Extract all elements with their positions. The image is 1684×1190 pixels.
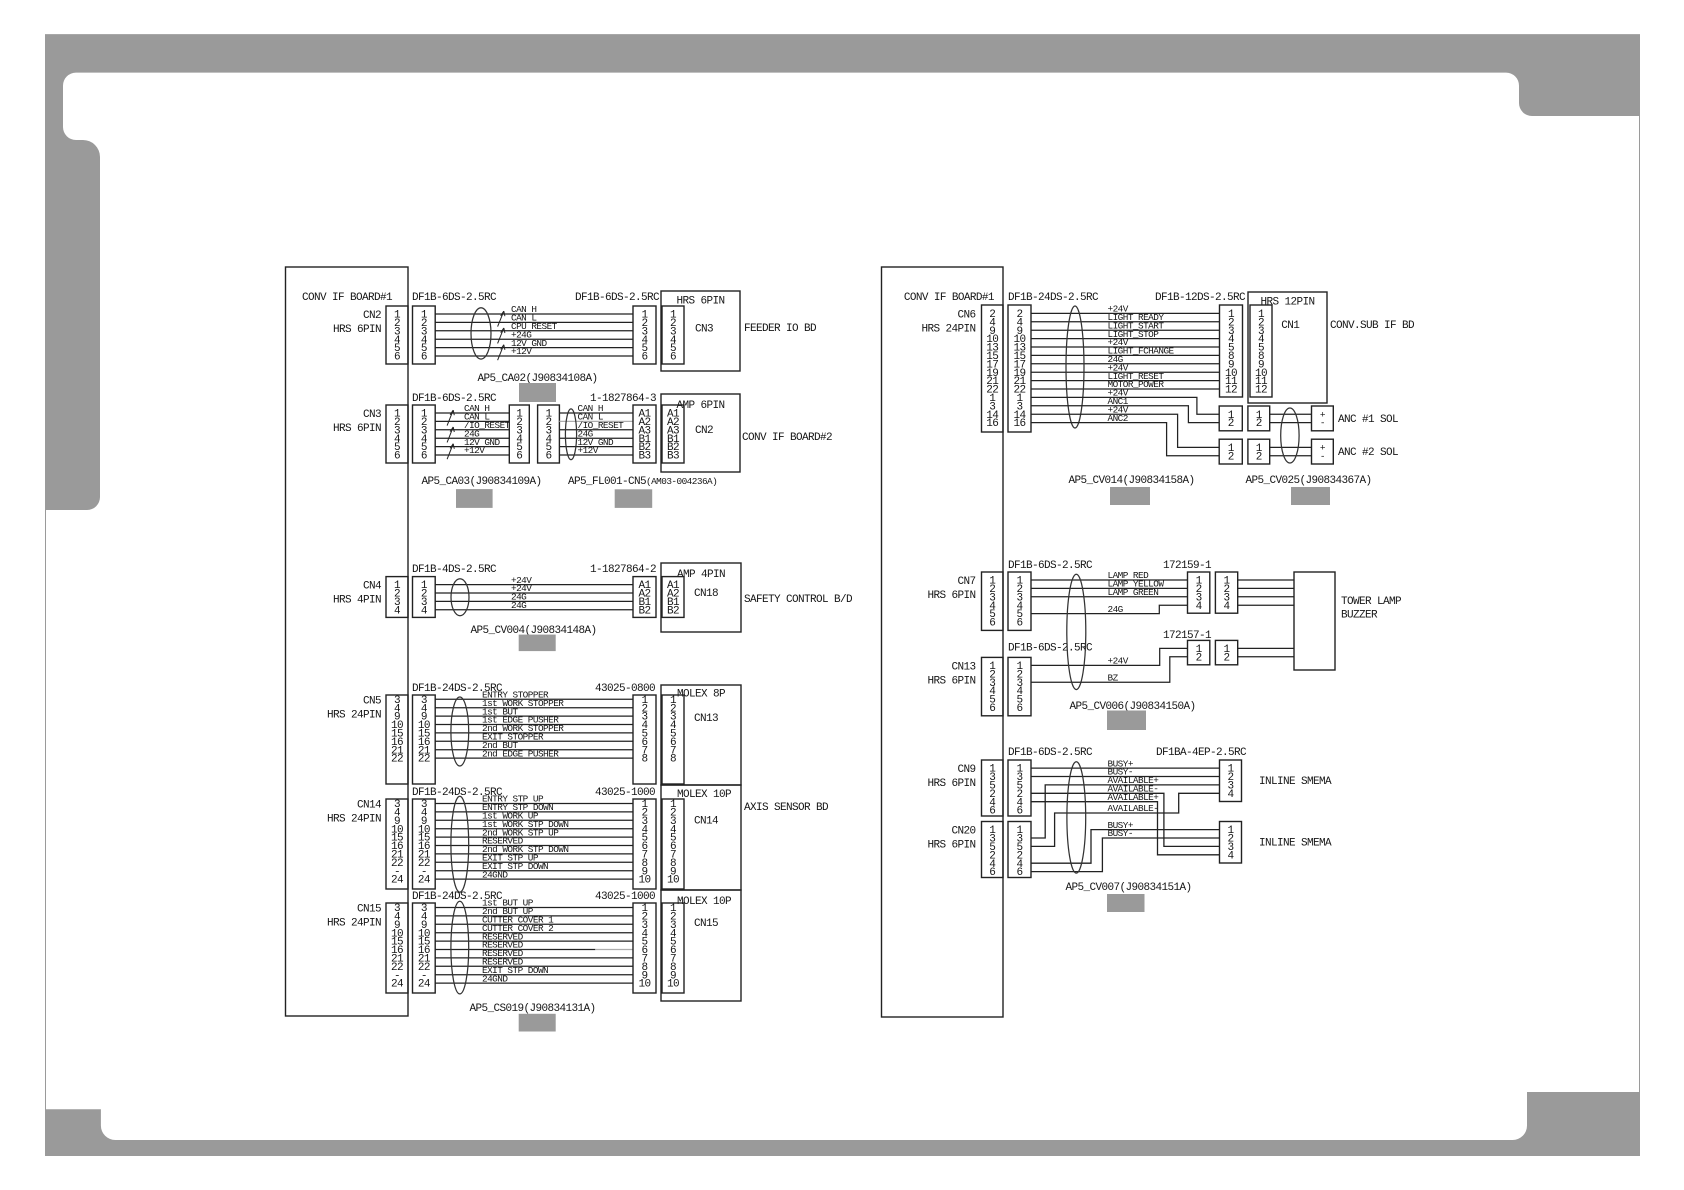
svg-text:24GND: 24GND — [482, 869, 508, 880]
svg-text:HRS 24PIN: HRS 24PIN — [921, 323, 975, 335]
connector CN5 board pin box — [386, 695, 408, 784]
svg-text:6: 6 — [1016, 806, 1022, 818]
svg-text:CN13: CN13 — [951, 661, 975, 673]
svg-text:+12V: +12V — [578, 445, 599, 456]
cable shield ellipse (CN5 bundle) — [451, 697, 469, 766]
svg-text:24: 24 — [391, 979, 404, 991]
svg-text:2: 2 — [1228, 451, 1234, 463]
wires lamp connector to tower lamp — [1238, 580, 1294, 605]
cable shield ellipse AP5_CV006 — [1067, 574, 1086, 689]
connector cable plug (CONV IF BOARD#2 end) — [633, 405, 656, 463]
svg-text:43025-0800: 43025-0800 — [595, 683, 655, 695]
svg-text:24: 24 — [418, 875, 431, 887]
svg-text:CONV.SUB IF BD: CONV.SUB IF BD — [1330, 320, 1415, 332]
svg-text:CN4: CN4 — [363, 581, 382, 593]
svg-text:6: 6 — [545, 451, 551, 463]
wire ANC2 to ANC #2 SOL pin2 — [1031, 413, 1219, 456]
cable shield ellipse (CN14 bundle) — [451, 796, 469, 892]
wire BZ to buzzer connector pin2 — [1031, 657, 1188, 684]
svg-text:DF1B-6DS-2.5RC: DF1B-6DS-2.5RC — [1008, 643, 1093, 655]
label CN3 HRS 6PIN on board — [333, 409, 381, 435]
svg-text:+24V: +24V — [1108, 656, 1129, 667]
cable shield ellipse AP5_CV025 — [1281, 408, 1299, 463]
svg-text:6: 6 — [394, 352, 400, 364]
connector INLINE SMEMA 1 (DF1BA-4EP) — [1220, 760, 1242, 802]
svg-text:AP5_CS019(J90834131A): AP5_CS019(J90834131A) — [469, 1003, 595, 1015]
device TOWER LAMP BUZZER — [1294, 572, 1335, 670]
connector INLINE SMEMA 2 (DF1BA-4EP) — [1220, 822, 1242, 864]
connector CN5 cable plug — [413, 695, 436, 784]
svg-text:CONV IF BOARD#2: CONV IF BOARD#2 — [742, 432, 832, 444]
redaction box (row CN15 bottom) — [519, 1014, 556, 1032]
svg-text:BUZZER: BUZZER — [1341, 609, 1378, 621]
connector CN7 board pin box — [982, 572, 1004, 630]
wire +24V to ANC #1 SOL pin1 — [1031, 388, 1219, 415]
label CN5 HRS 24PIN on board — [327, 695, 381, 721]
board CONV IF BOARD#1 (left) — [286, 267, 409, 1016]
label cable part AP5_CV014(J90834158A) — [1068, 475, 1194, 487]
label connector type 1-1827864-2 — [590, 564, 656, 576]
svg-text:CN3: CN3 — [695, 324, 713, 336]
svg-text:24G: 24G — [511, 600, 527, 611]
connector CN13 board pin box — [982, 657, 1004, 715]
svg-text:6: 6 — [641, 352, 647, 364]
svg-text:24GND: 24GND — [482, 973, 508, 984]
svg-text:24: 24 — [418, 979, 431, 991]
svg-text:10: 10 — [638, 875, 650, 887]
connector CN3 pin box on FEEDER IO BD — [662, 306, 684, 364]
label ANC #2 SOL — [1338, 447, 1398, 459]
connector CN18 pin box on SAFETY CONTROL B/D — [662, 577, 684, 618]
device FEEDER IO BD HRS 6PIN — [661, 291, 740, 371]
svg-text:-: - — [1320, 418, 1325, 429]
wires CN4 cable AP5_CV004 — [435, 575, 633, 611]
label connector type DF1B-12DS-2.5RC — [1155, 292, 1246, 304]
wires CN7 lamp signals — [1031, 570, 1188, 598]
wires CN15 cable (10p) — [435, 898, 633, 985]
label TOWER LAMP BUZZER — [1341, 596, 1402, 621]
svg-text:INLINE SMEMA: INLINE SMEMA — [1259, 838, 1332, 850]
device CONV IF BOARD#2 AMP 6PIN — [661, 394, 740, 472]
svg-text:16: 16 — [986, 418, 998, 430]
wires to ANC #1 SOL — [1270, 414, 1312, 422]
label connector type 172159-1 — [1163, 560, 1212, 572]
label connector type 43025-1000 (CN14) — [595, 787, 655, 799]
label CN20 HRS 6PIN on board — [927, 826, 975, 852]
svg-text:ANC #2 SOL: ANC #2 SOL — [1338, 447, 1398, 459]
svg-text:6: 6 — [1016, 703, 1022, 715]
svg-text:DF1B-24DS-2.5RC: DF1B-24DS-2.5RC — [1008, 292, 1099, 304]
svg-text:22: 22 — [391, 754, 403, 766]
label connector type DF1B-24DS-2.5RC (CN15) — [412, 891, 503, 903]
wire BUSY- CN9.3 to SMEMA1.2 — [1031, 767, 1220, 778]
label INLINE SMEMA (lower) — [1259, 838, 1332, 850]
connector CN9 board pin box — [982, 760, 1004, 818]
redaction box (tower lamp cable) — [1107, 711, 1146, 731]
wire +24V to buzzer connector pin1 — [1031, 648, 1188, 666]
svg-text:HRS 12PIN: HRS 12PIN — [1260, 297, 1314, 309]
svg-text:4: 4 — [1227, 850, 1234, 862]
connector 172159-1 receptacle — [1188, 572, 1210, 613]
svg-text:CN3: CN3 — [363, 409, 381, 421]
redaction box (SMEMA cable) — [1107, 894, 1145, 912]
svg-text:CN15: CN15 — [357, 904, 381, 916]
label CN15 HRS 24PIN on board — [327, 904, 381, 930]
svg-text:AVAILABLE-: AVAILABLE- — [1108, 803, 1159, 814]
redaction box (CN6 cable) — [1110, 487, 1150, 505]
label cable part AP5_CV025(J90834367A) — [1245, 475, 1371, 487]
label INLINE SMEMA (upper) — [1259, 776, 1332, 788]
svg-text:AVAILABLE+: AVAILABLE+ — [1108, 792, 1160, 803]
label connector type 172157-1 — [1163, 630, 1212, 642]
label CONV.SUB IF BD — [1330, 320, 1415, 332]
wire AVAILABLE- CN20 to SMEMA1.4 — [1031, 793, 1220, 846]
svg-text:BUSY-: BUSY- — [1108, 828, 1133, 839]
redaction box (row CN3 right) — [615, 489, 653, 508]
svg-text:AP5_CV007(J90834151A): AP5_CV007(J90834151A) — [1065, 882, 1191, 894]
svg-text:8: 8 — [641, 754, 647, 766]
device AXIS SENSOR BD MOLEX 8P — [661, 685, 741, 785]
connector CN20 board pin box — [982, 822, 1004, 880]
connector CN15 board pin box — [386, 903, 408, 993]
wire AVAILABLE+ CN9.4 to SMEMA2.4 — [1031, 792, 1220, 855]
svg-text:4: 4 — [1224, 601, 1231, 613]
wire AVAILABLE+ CN20 to SMEMA1.3 — [1031, 775, 1220, 838]
svg-text:6: 6 — [989, 806, 995, 818]
label connector type DF1BA-4EP-2.5RC — [1156, 747, 1247, 759]
redaction box (row CN3 left) — [456, 489, 493, 508]
redaction box (row CN2) — [519, 383, 556, 402]
wires buzzer connector to tower lamp — [1238, 648, 1294, 656]
connector CN14 board pin box — [386, 799, 408, 889]
svg-text:10: 10 — [638, 979, 650, 991]
svg-text:B3: B3 — [638, 451, 650, 463]
svg-text:HRS 6PIN: HRS 6PIN — [927, 675, 975, 687]
svg-text:HRS 24PIN: HRS 24PIN — [327, 709, 381, 721]
svg-text:4: 4 — [1227, 789, 1234, 801]
connector CN2 cable plug — [413, 306, 436, 364]
svg-text:CONV IF BOARD#1: CONV IF BOARD#1 — [302, 292, 393, 304]
wires CN2-CN3 cable AP5_CA02 — [435, 304, 633, 360]
wires to ANC #2 SOL — [1270, 447, 1312, 455]
svg-text:CN6: CN6 — [957, 309, 975, 321]
svg-text:BZ: BZ — [1108, 672, 1119, 683]
svg-text:AXIS SENSOR BD: AXIS SENSOR BD — [744, 802, 829, 814]
label connector type DF1B-6DS-2.5RC (CN3 cable) — [412, 393, 497, 405]
label CN14 HRS 24PIN on board — [327, 800, 382, 826]
label cable part AP5_CA03(J90834109A) — [421, 476, 541, 488]
wire AVAILABLE- CN9.2 to SMEMA2.3 — [1031, 784, 1220, 847]
connector molex plug (CN15 end) — [633, 903, 656, 993]
svg-text:CN13: CN13 — [694, 713, 718, 725]
svg-text:-: - — [1320, 451, 1325, 462]
label cable part AP5_CA02(J90834108A) — [477, 373, 597, 385]
svg-text:43025-1000: 43025-1000 — [595, 891, 655, 903]
connector CN3 board pin box — [386, 405, 408, 463]
connector CN7 cable plug — [1008, 572, 1031, 630]
svg-text:AP5_CA03(J90834109A): AP5_CA03(J90834109A) — [421, 476, 541, 488]
connector CN15 pin box on AXIS SENSOR BD — [662, 903, 684, 993]
svg-text:B2: B2 — [638, 605, 650, 617]
label cable part AP5_CV004(J90834148A) — [470, 625, 596, 637]
svg-text:+12V: +12V — [464, 445, 485, 456]
svg-text:6: 6 — [1016, 618, 1022, 630]
label ANC #1 SOL — [1338, 414, 1398, 426]
connector CN13 cable plug — [1008, 657, 1031, 715]
label cable part AP5_CV006(J90834150A) — [1069, 701, 1195, 713]
wire +24V to ANC #2 SOL pin1 — [1031, 404, 1219, 447]
svg-text:6: 6 — [989, 618, 995, 630]
svg-text:CN2: CN2 — [363, 310, 381, 322]
svg-text:2: 2 — [1256, 418, 1262, 430]
connector molex plug (CN14 end) — [633, 799, 656, 889]
svg-text:DF1BA-4EP-2.5RC: DF1BA-4EP-2.5RC — [1156, 747, 1247, 759]
svg-text:12: 12 — [1225, 385, 1237, 397]
connector inline plug AP5_FL001 — [538, 405, 560, 463]
device CONV.SUB IF BD HRS 12PIN — [1248, 292, 1327, 403]
redaction box (row CN4) — [519, 635, 556, 652]
svg-text:16: 16 — [1013, 418, 1025, 430]
connector 172157-1 plug — [1215, 640, 1237, 664]
wire BUSY+ CN9.1 to SMEMA1.1 — [1031, 758, 1220, 769]
svg-text:TOWER LAMP: TOWER LAMP — [1341, 596, 1402, 608]
svg-text:LAMP GREEN: LAMP GREEN — [1108, 587, 1159, 598]
label CONV IF BOARD#2 — [742, 432, 832, 444]
label connector type DF1B-24DS-2.5RC (CN6) — [1008, 292, 1099, 304]
connector ANC #1 cable receptacle — [1219, 406, 1242, 431]
connector CN2 pin box on CONV IF BOARD#2 — [662, 405, 684, 463]
connector CN3 cable plug — [413, 405, 436, 463]
svg-text:FEEDER IO BD: FEEDER IO BD — [744, 323, 817, 335]
svg-text:6: 6 — [1016, 867, 1022, 879]
connector ANC #2 cable receptacle — [1219, 439, 1242, 464]
connector ANC #1 cable plug — [1248, 406, 1270, 431]
solenoid ANC #1 SOL terminal box — [1312, 406, 1334, 431]
svg-text:DF1B-6DS-2.5RC: DF1B-6DS-2.5RC — [412, 292, 497, 304]
label connector type DF1B-6DS-2.5RC (CN9) — [1008, 747, 1093, 759]
svg-text:2: 2 — [1196, 652, 1202, 664]
label cable part AP5_FL001-CN5(AM03-004236A) — [568, 476, 717, 488]
svg-text:8: 8 — [670, 754, 676, 766]
svg-text:(AM03-004236A): (AM03-004236A) — [646, 476, 717, 487]
svg-text:HRS 24PIN: HRS 24PIN — [327, 814, 381, 826]
wires CN5 cable AP5_CS019 (8p) — [435, 690, 633, 760]
svg-text:CN20: CN20 — [951, 826, 975, 838]
svg-text:10: 10 — [667, 979, 679, 991]
svg-text:HRS 4PIN: HRS 4PIN — [333, 595, 381, 607]
svg-text:6: 6 — [989, 867, 995, 879]
label connector type DF1B-6DS-2.5RC (CN2 cable, feeder end) — [575, 292, 660, 304]
label CN7 HRS 6PIN on board — [927, 576, 975, 602]
label connector type DF1B-6DS-2.5RC (CN13) — [1008, 643, 1093, 655]
connector CN4 cable plug — [413, 577, 436, 618]
svg-text:CN7: CN7 — [957, 576, 975, 588]
svg-text:1-1827864-2: 1-1827864-2 — [590, 564, 656, 576]
label connector type DF1B-6DS-2.5RC (CN7) — [1008, 560, 1093, 572]
svg-text:CN1: CN1 — [1281, 320, 1300, 332]
svg-text:24G: 24G — [1108, 604, 1124, 615]
cable shield ellipse AP5_CA02 — [471, 308, 491, 359]
label cable part AP5_CV007(J90834151A) — [1065, 882, 1191, 894]
svg-text:B3: B3 — [667, 451, 679, 463]
label connector type DF1B-4DS-2.5RC — [412, 564, 497, 576]
svg-text:CONV IF BOARD#1: CONV IF BOARD#1 — [904, 292, 995, 304]
svg-text:2: 2 — [1256, 451, 1262, 463]
svg-text:12: 12 — [1255, 385, 1267, 397]
wire BUSY+ CN20 to SMEMA2.1 — [1031, 820, 1220, 863]
connector inline receptacle AP5_CA03 — [509, 405, 529, 463]
svg-text:6: 6 — [394, 451, 400, 463]
cable shield ellipse (CN15 bundle) — [451, 901, 469, 994]
label CN2 HRS 6PIN on board — [333, 310, 381, 336]
connector CN9 cable plug — [1008, 760, 1031, 818]
svg-text:MOLEX 10P: MOLEX 10P — [677, 789, 732, 801]
svg-text:HRS 6PIN: HRS 6PIN — [927, 778, 975, 790]
svg-text:DF1B-6DS-2.5RC: DF1B-6DS-2.5RC — [1008, 560, 1093, 572]
svg-text:6: 6 — [421, 451, 427, 463]
wire 24G to lamp connector pin4 — [1031, 604, 1188, 615]
connector CN4 board pin box — [386, 577, 408, 618]
wires CN14 cable (10p) — [435, 794, 633, 881]
connector CN14 pin box on AXIS SENSOR BD — [662, 799, 684, 889]
svg-text:CN14: CN14 — [694, 816, 719, 828]
wire ANC1 to ANC #1 SOL pin2 — [1031, 396, 1219, 423]
svg-text:AP5_FL001-CN5: AP5_FL001-CN5 — [568, 476, 646, 488]
svg-text:DF1B-6DS-2.5RC: DF1B-6DS-2.5RC — [1008, 747, 1093, 759]
label SAFETY CONTROL B/D — [744, 594, 853, 606]
svg-text:AP5_CV025(J90834367A): AP5_CV025(J90834367A) — [1245, 475, 1371, 487]
svg-text:HRS 6PIN: HRS 6PIN — [927, 840, 975, 852]
svg-text:ANC #1 SOL: ANC #1 SOL — [1338, 414, 1398, 426]
svg-text:DF1B-12DS-2.5RC: DF1B-12DS-2.5RC — [1155, 292, 1246, 304]
svg-text:6: 6 — [516, 451, 522, 463]
svg-text:CN5: CN5 — [363, 695, 381, 707]
svg-text:HRS 6PIN: HRS 6PIN — [927, 590, 975, 602]
svg-text:CN14: CN14 — [357, 800, 382, 812]
svg-text:4: 4 — [394, 605, 401, 617]
redaction box (ANC cable) — [1291, 487, 1330, 505]
connector 12-pin cable plug — [1220, 305, 1243, 397]
connector cable plug (feeder end) — [633, 306, 656, 364]
svg-text:24: 24 — [391, 875, 404, 887]
svg-text:2: 2 — [1224, 652, 1230, 664]
svg-text:2nd EDGE PUSHER: 2nd EDGE PUSHER — [482, 748, 559, 759]
connector cable plug (safety end) — [633, 577, 656, 618]
cable shield ellipse AP5_FL001 — [565, 409, 576, 460]
svg-text:+12V: +12V — [511, 346, 532, 357]
svg-text:CN2: CN2 — [695, 425, 713, 437]
svg-text:MOLEX 10P: MOLEX 10P — [677, 896, 732, 908]
cable shield ellipse AP5_CV004 — [451, 579, 469, 616]
label CN6 HRS 24PIN on board — [921, 309, 975, 335]
svg-text:2: 2 — [1228, 418, 1234, 430]
connector CN14 cable plug — [413, 799, 436, 889]
svg-text:AP5_CV014(J90834158A): AP5_CV014(J90834158A) — [1068, 475, 1194, 487]
label FEEDER IO BD — [744, 323, 817, 335]
device SAFETY CONTROL B/D AMP 4PIN — [661, 563, 741, 632]
connector CN6 board pin box — [982, 305, 1004, 432]
connector CN20 cable plug — [1008, 822, 1031, 880]
svg-text:6: 6 — [989, 703, 995, 715]
svg-text:10: 10 — [667, 875, 679, 887]
label AXIS SENSOR BD — [744, 802, 829, 814]
svg-text:INLINE SMEMA: INLINE SMEMA — [1259, 776, 1332, 788]
connector ANC #2 cable plug — [1248, 439, 1270, 464]
connector CN2 board pin box — [386, 306, 408, 364]
wires CN3 cable AP5_CA03 segment 1 — [435, 403, 510, 459]
svg-text:SAFETY CONTROL B/D: SAFETY CONTROL B/D — [744, 594, 853, 606]
svg-text:CN18: CN18 — [694, 588, 718, 600]
svg-text:DF1B-4DS-2.5RC: DF1B-4DS-2.5RC — [412, 564, 497, 576]
label CN4 HRS 4PIN on board — [333, 581, 382, 607]
wire BUSY- CN20 to SMEMA2.2 — [1031, 828, 1220, 871]
connector 172157-1 receptacle — [1188, 640, 1210, 664]
svg-text:172159-1: 172159-1 — [1163, 560, 1212, 572]
svg-text:6: 6 — [670, 352, 676, 364]
connector CN13 pin box on AXIS SENSOR BD — [662, 695, 684, 784]
connector CN1 pin box on CONV.SUB IF BD — [1250, 305, 1272, 397]
wires filter cable AP5_FL001 segment 2 — [559, 403, 633, 456]
label connector type 1-1827864-3 — [590, 393, 656, 405]
label connector type DF1B-24DS-2.5RC (CN5) — [412, 683, 503, 695]
solenoid ANC #2 SOL terminal box — [1312, 439, 1334, 464]
label connector type 43025-0800 — [595, 683, 655, 695]
wires CN6 cable AP5_CV014 (rows 1-10) — [1031, 304, 1220, 391]
label connector type 43025-1000 (CN15) — [595, 891, 655, 903]
board CONV IF BOARD#1 (right) — [882, 267, 1004, 1017]
label CN9 HRS 6PIN on board — [927, 764, 975, 790]
svg-text:HRS 6PIN: HRS 6PIN — [333, 324, 381, 336]
device AXIS SENSOR BD MOLEX 10P (CN14) — [661, 785, 741, 890]
label cable part AP5_CS019(J90834131A) — [469, 1003, 595, 1015]
svg-text:4: 4 — [421, 605, 428, 617]
connector 172159-1 plug — [1215, 572, 1237, 613]
connector CN6 cable plug — [1008, 305, 1031, 432]
svg-text:HRS 6PIN: HRS 6PIN — [333, 423, 381, 435]
svg-text:HRS 24PIN: HRS 24PIN — [327, 918, 381, 930]
svg-text:CN15: CN15 — [694, 918, 718, 930]
cable shield ellipse AP5_CV014 — [1066, 306, 1084, 428]
svg-text:22: 22 — [418, 754, 430, 766]
label connector type DF1B-24DS-2.5RC (CN14) — [412, 787, 503, 799]
label connector type DF1B-6DS-2.5RC (CN2 cable, board end) — [412, 292, 497, 304]
svg-text:DF1B-6DS-2.5RC: DF1B-6DS-2.5RC — [575, 292, 660, 304]
cable shield ellipse AP5_CV007 — [1067, 762, 1086, 873]
svg-text:43025-1000: 43025-1000 — [595, 787, 655, 799]
svg-text:CN9: CN9 — [957, 764, 975, 776]
connector molex plug (CN13 end) — [633, 695, 656, 784]
connector CN15 cable plug — [413, 903, 436, 993]
svg-text:B2: B2 — [667, 605, 679, 617]
svg-text:ANC2: ANC2 — [1108, 413, 1128, 424]
svg-text:6: 6 — [421, 352, 427, 364]
device AXIS SENSOR BD MOLEX 10P (CN15) — [661, 890, 741, 1001]
svg-text:4: 4 — [1196, 601, 1203, 613]
label CN13 HRS 6PIN on board — [927, 661, 975, 687]
